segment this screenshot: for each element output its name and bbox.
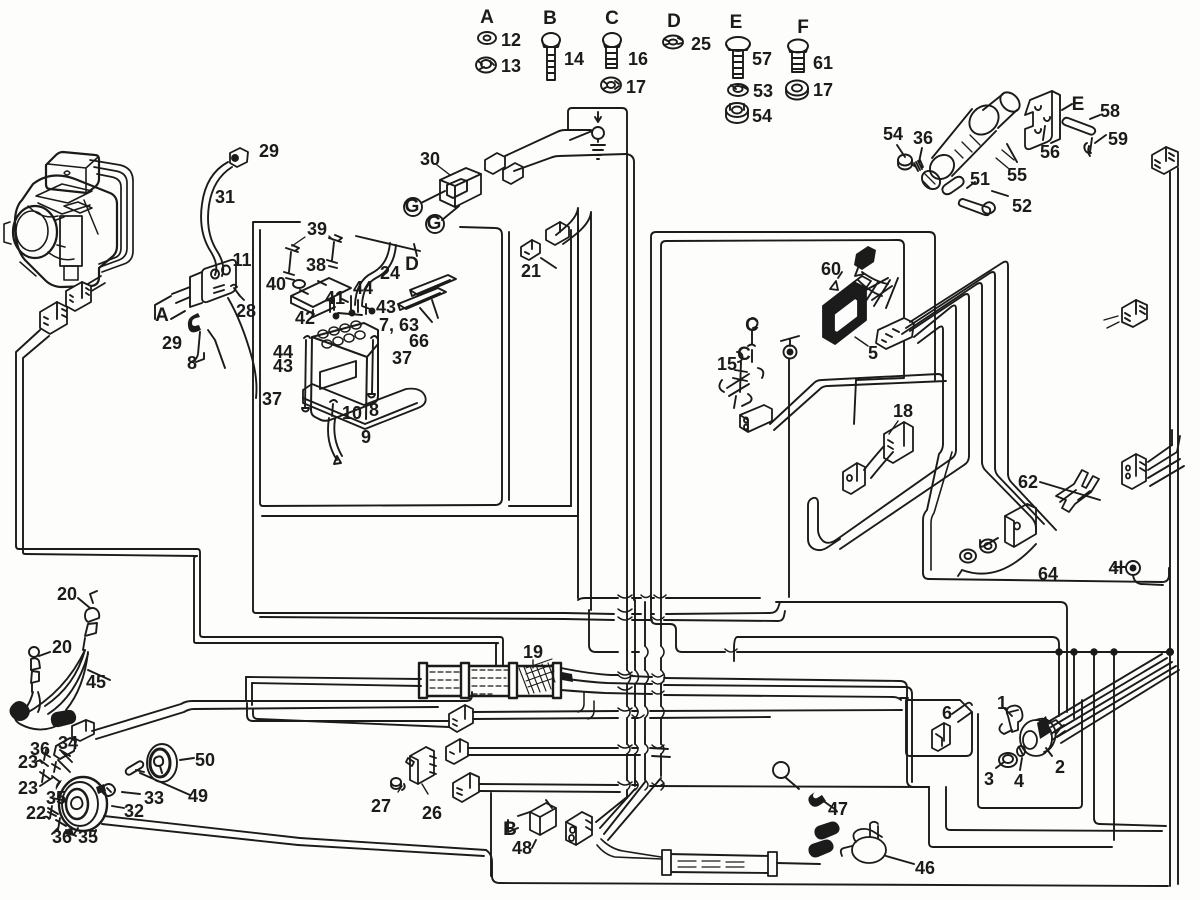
svg-text:24: 24 <box>380 263 400 283</box>
bottom long wire <box>486 850 1168 886</box>
strap 43a <box>410 275 456 296</box>
svg-text:39: 39 <box>307 219 327 239</box>
wire drop to harness tube <box>496 637 503 665</box>
grommet 4l <box>1126 561 1140 575</box>
svg-text:45: 45 <box>86 672 106 692</box>
console inner rect <box>661 240 904 612</box>
svg-text:59: 59 <box>1108 129 1128 149</box>
cable 18 <box>864 446 893 478</box>
engine cylinder <box>60 216 82 266</box>
wire 8 drop <box>190 330 225 368</box>
svg-text:61: 61 <box>813 53 833 73</box>
spark plug wire down-left <box>69 283 105 304</box>
svg-text:50: 50 <box>195 750 215 770</box>
64 rect <box>923 444 1169 582</box>
47 clip <box>808 791 826 807</box>
wire down from 26 rows <box>490 793 492 876</box>
svg-text:64: 64 <box>1038 564 1058 584</box>
row R1 <box>578 598 1067 712</box>
wire pair bottom corner going right <box>16 546 197 556</box>
ground symbol <box>597 140 599 142</box>
nut 54 <box>726 103 748 123</box>
wire loop 18 <box>808 498 840 550</box>
connectors 46 left <box>808 822 839 858</box>
svg-text:35: 35 <box>78 827 98 847</box>
svg-text:G: G <box>427 213 442 234</box>
panel outer left <box>253 222 300 610</box>
svg-text:12: 12 <box>501 30 521 50</box>
bracket 34 <box>54 738 76 772</box>
bracket plate 40 <box>291 278 351 317</box>
panel outer bottom <box>262 506 578 516</box>
svg-text:56: 56 <box>1040 142 1060 162</box>
battery caps <box>318 321 365 348</box>
wire pair to connector <box>247 703 449 727</box>
carriage bolt 57 <box>726 37 750 78</box>
A bracket label lines <box>155 296 185 319</box>
bolt 14 <box>542 33 560 80</box>
switch 64 <box>1005 504 1036 547</box>
svg-text:B: B <box>543 8 557 29</box>
62 leader <box>1040 482 1100 500</box>
coil bracket 11 <box>202 260 236 302</box>
svg-text:57: 57 <box>752 49 772 69</box>
connector mid rows <box>449 705 473 732</box>
wire pair diagonal <box>92 701 194 739</box>
connector at 5 <box>876 318 914 349</box>
60 arrow <box>830 272 842 290</box>
washer 17 <box>601 78 621 93</box>
plug wire 31 <box>201 162 232 276</box>
svg-text:33: 33 <box>144 788 164 808</box>
hook near 6 <box>952 703 972 722</box>
svg-text:54: 54 <box>752 106 772 126</box>
62 spade connectors <box>1056 470 1099 512</box>
terminal 20 lower <box>29 647 39 657</box>
starter motor 55 body <box>918 89 1023 193</box>
connector bar <box>740 405 772 432</box>
washer 25 <box>663 36 683 49</box>
staircase rect S2 <box>946 787 1162 831</box>
grommet near 15 <box>784 346 797 359</box>
svg-text:15: 15 <box>717 354 737 374</box>
trunk second wire <box>626 154 634 600</box>
engine air cleaner box <box>46 152 99 193</box>
battery cable 24 <box>355 243 396 305</box>
svg-text:43: 43 <box>376 297 396 317</box>
harness tube 19 <box>419 659 561 698</box>
tube end connector <box>562 672 573 682</box>
terminal 20 upper <box>83 608 99 650</box>
svg-text:C: C <box>605 8 619 29</box>
wire 21 connector b <box>521 240 540 260</box>
64 leader arc <box>958 544 1036 576</box>
switch 5 <box>823 276 871 344</box>
svg-text:31: 31 <box>215 187 235 207</box>
vent tube 9 <box>328 418 342 464</box>
bolt 52 <box>959 199 995 215</box>
bracket mount plate <box>172 272 202 307</box>
svg-text:D: D <box>667 11 681 32</box>
battery label plate <box>320 361 356 389</box>
relay connectors <box>485 153 523 184</box>
svg-text:4: 4 <box>1014 771 1024 791</box>
key 1 <box>1007 706 1023 732</box>
connector row bottom <box>453 773 479 802</box>
wires 45 <box>19 650 88 714</box>
fuel pump 46 <box>841 822 886 863</box>
svg-text:3: 3 <box>984 769 994 789</box>
washer 4 <box>1017 746 1025 756</box>
engine crank boss <box>13 206 57 258</box>
solenoid bracket 56 <box>1025 91 1052 149</box>
svg-text:28: 28 <box>236 301 256 321</box>
svg-text:58: 58 <box>1100 101 1120 121</box>
tube fan right <box>561 668 929 787</box>
wire stub junctions <box>578 692 594 719</box>
staircase diagonals to 64 area <box>982 462 1056 532</box>
relay 30 box <box>440 168 481 207</box>
terminal bolts 41-44 cluster <box>330 296 362 315</box>
nut 3 <box>999 753 1017 767</box>
connector 29 top <box>230 148 248 167</box>
svg-text:43: 43 <box>273 356 293 376</box>
panel bottom wire going right <box>253 610 565 619</box>
drive 51 <box>942 177 963 195</box>
cable 24 stiff end <box>356 236 420 256</box>
item 6 box <box>906 700 972 756</box>
svg-text:19: 19 <box>523 642 543 662</box>
svg-text:23: 23 <box>18 752 38 772</box>
svg-text:29: 29 <box>162 333 182 353</box>
top trunk rect <box>568 108 627 600</box>
svg-text:53: 53 <box>753 81 773 101</box>
G circle 1 <box>404 198 422 216</box>
branch up from horizontal pair <box>246 677 252 705</box>
screws on bracket <box>231 285 244 300</box>
washer 12 <box>478 32 496 44</box>
hub black <box>10 701 30 721</box>
wire from flywheel to bottom <box>102 816 300 845</box>
trunk verticals bottom part <box>626 600 628 798</box>
horizontal pair under tube <box>192 692 472 709</box>
row R3 right <box>734 637 1059 716</box>
svg-text:1: 1 <box>997 693 1007 713</box>
svg-text:11: 11 <box>232 250 251 270</box>
staircase rect S1 <box>978 700 1082 808</box>
screw 39b <box>327 235 342 268</box>
engine wire loops <box>90 160 133 272</box>
engine body <box>15 175 117 287</box>
strap 43b <box>398 288 446 310</box>
svg-text:5: 5 <box>868 343 878 363</box>
right border wires <box>1170 168 1178 886</box>
row R9 <box>479 784 927 787</box>
battery tray 8 <box>303 384 426 429</box>
wire pair into tube left <box>246 677 421 686</box>
screws 22/35/36 cluster <box>42 806 76 836</box>
svg-text:2: 2 <box>1055 757 1065 777</box>
bolt 10 <box>330 400 337 416</box>
svg-text:10: 10 <box>342 403 362 423</box>
panel outer right <box>571 226 578 514</box>
svg-text:9: 9 <box>361 427 371 447</box>
wires to heat tube <box>597 839 662 859</box>
G circle 2 <box>426 215 444 233</box>
stator ring 50 <box>147 744 177 782</box>
plug 18 <box>843 463 865 494</box>
connector 48 <box>566 812 592 845</box>
connector 45a <box>51 710 76 727</box>
svg-text:32: 32 <box>124 801 144 821</box>
svg-text:E: E <box>1072 94 1085 115</box>
svg-text:34: 34 <box>58 733 78 753</box>
C clip circle <box>773 762 789 778</box>
bolt 61 <box>788 40 808 73</box>
row R4 <box>651 600 1170 652</box>
leader lines 1-4 <box>996 708 1052 770</box>
connector 45b <box>72 720 94 741</box>
svg-text:E: E <box>730 12 743 33</box>
svg-text:42: 42 <box>295 308 315 328</box>
62 connector block <box>1122 454 1146 489</box>
wires to top trunk <box>505 130 626 171</box>
svg-text:44: 44 <box>353 278 373 298</box>
svg-text:46: 46 <box>915 858 935 878</box>
svg-text:6: 6 <box>942 703 952 723</box>
clip 29 lower <box>188 313 201 332</box>
hump arcs on trunk <box>618 595 737 790</box>
connector right edge mid <box>1122 300 1147 327</box>
console inner right drop <box>854 380 856 424</box>
svg-text:47: 47 <box>828 799 848 819</box>
svg-text:36: 36 <box>913 128 933 148</box>
svg-text:52: 52 <box>1012 196 1032 216</box>
engine mount plate <box>36 184 92 214</box>
bolt 33 <box>102 784 115 796</box>
svg-text:G: G <box>405 196 420 217</box>
svg-text:54: 54 <box>883 124 903 144</box>
nut 17b <box>786 81 808 100</box>
wire pair down step <box>194 549 500 643</box>
svg-text:29: 29 <box>259 141 279 161</box>
console outer rect <box>651 232 935 600</box>
junction dot right <box>1167 649 1173 655</box>
relay 48 <box>530 803 556 835</box>
staircase rect S3 <box>929 787 1112 847</box>
leader 39 <box>292 236 333 246</box>
pin 49 <box>126 761 144 775</box>
svg-text:26: 26 <box>422 803 442 823</box>
svg-text:17: 17 <box>813 80 833 100</box>
svg-text:60: 60 <box>821 259 841 279</box>
bundle 48 to trunk <box>596 778 661 840</box>
connector to engine upper <box>66 282 91 311</box>
svg-text:25: 25 <box>691 34 711 54</box>
wire pair to left edge <box>16 330 49 552</box>
clip 6 <box>932 723 950 751</box>
svg-text:16: 16 <box>628 49 648 69</box>
leader lines labels <box>39 598 194 836</box>
svg-text:55: 55 <box>1007 165 1027 185</box>
wires bar to console right <box>770 374 946 430</box>
flywheel 32 <box>59 777 107 831</box>
svg-text:48: 48 <box>512 838 532 858</box>
svg-text:37: 37 <box>392 348 412 368</box>
panel pair crossing <box>632 602 785 621</box>
svg-text:22: 22 <box>26 803 46 823</box>
wires from 21 to verticals <box>556 208 578 598</box>
panel pair continue <box>565 613 614 620</box>
wire 28 leader line <box>228 298 257 398</box>
svg-text:20: 20 <box>57 584 77 604</box>
diagonals to 18 loop <box>836 450 969 549</box>
engine interior detail <box>20 200 98 276</box>
svg-text:C: C <box>745 315 759 336</box>
connector row lower <box>446 739 468 764</box>
svg-text:A: A <box>480 7 494 28</box>
svg-text:C: C <box>737 344 751 365</box>
svg-text:41: 41 <box>325 288 345 308</box>
fan wires from connector 5 <box>902 262 1008 474</box>
svg-text:8: 8 <box>187 353 197 373</box>
svg-text:F: F <box>797 17 809 38</box>
ignition bundle diagonal <box>1048 654 1179 743</box>
svg-text:20: 20 <box>52 637 72 657</box>
switch 2 <box>1020 719 1062 756</box>
connector top right <box>1152 147 1178 174</box>
svg-text:51: 51 <box>970 169 990 189</box>
cotter 59 <box>1084 138 1092 156</box>
bolt rod 37 right <box>368 336 377 398</box>
bundle connector at switch <box>1037 716 1051 739</box>
wires from 62 connector to border <box>1148 445 1184 486</box>
svg-text:35: 35 <box>46 788 66 808</box>
svg-text:36: 36 <box>52 827 72 847</box>
svg-text:49: 49 <box>188 786 208 806</box>
svg-text:30: 30 <box>420 149 440 169</box>
leader lines starter labels <box>897 115 1106 196</box>
svg-text:D: D <box>405 254 419 275</box>
svg-text:62: 62 <box>1018 472 1038 492</box>
washer 38 <box>293 280 305 288</box>
label leaders <box>398 165 898 794</box>
pin 58 <box>1062 118 1095 135</box>
switch 26 <box>406 747 436 784</box>
nut 27 <box>391 778 401 786</box>
item 15 hardware <box>719 318 763 408</box>
bracket E leader <box>1062 104 1072 110</box>
bolt 16 <box>603 33 621 68</box>
svg-text:B: B <box>503 819 517 840</box>
wire 21 connector a <box>546 222 569 245</box>
spring 36 <box>913 160 923 171</box>
svg-text:A: A <box>155 305 169 326</box>
svg-text:37: 37 <box>262 389 282 409</box>
lock washer 53 <box>728 84 748 96</box>
plug 60 <box>854 246 876 270</box>
screw 39a <box>284 245 299 280</box>
svg-text:4l: 4l <box>1108 558 1123 578</box>
svg-text:27: 27 <box>371 796 391 816</box>
connector 18 block <box>884 422 913 463</box>
svg-text:18: 18 <box>893 401 913 421</box>
row R4 left from 589 vertical <box>589 610 639 652</box>
screws 23/36 cluster <box>36 750 60 782</box>
svg-text:23: 23 <box>18 778 38 798</box>
svg-text:17: 17 <box>626 77 646 97</box>
svg-text:8: 8 <box>369 400 379 420</box>
connector to engine lower <box>40 302 67 334</box>
64 rect inner line <box>931 452 952 570</box>
B bracket <box>508 812 536 848</box>
bolt rod 37 left <box>302 336 310 412</box>
svg-text:38: 38 <box>306 255 326 275</box>
panel inner left <box>260 230 495 506</box>
svg-text:21: 21 <box>521 261 541 281</box>
panel inner right <box>460 227 509 505</box>
nut 13 <box>476 58 496 73</box>
battery 7/63 body <box>311 323 378 421</box>
svg-text:40: 40 <box>266 274 286 294</box>
heat tube <box>662 850 777 876</box>
nuts 64 <box>960 540 996 563</box>
svg-text:13: 13 <box>501 56 521 76</box>
hatch wires at 5 <box>858 272 898 308</box>
svg-text:14: 14 <box>564 49 584 69</box>
nut 54 <box>898 155 912 170</box>
relay G terminal leads <box>421 191 459 220</box>
